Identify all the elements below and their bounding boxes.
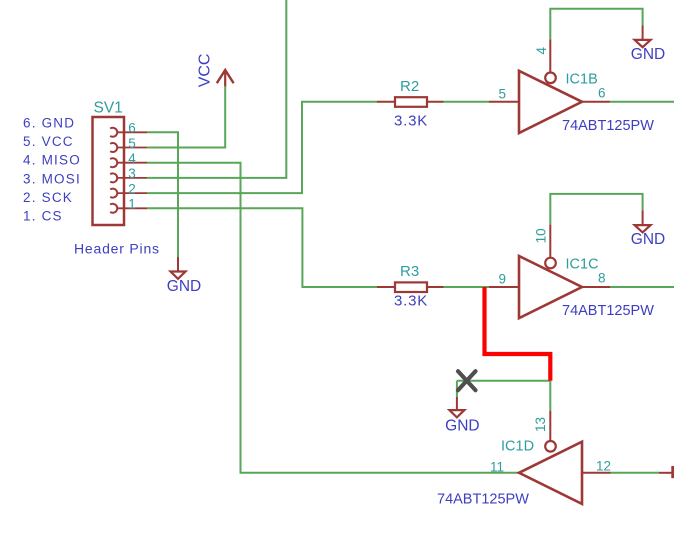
bubble enable IC1B — [545, 73, 556, 84]
wire pin3 MOSI net to top edge — [147, 0, 286, 178]
svg-text:IC1C: IC1C — [566, 257, 599, 273]
pin 2 of SV1 — [110, 181, 147, 197]
svg-text:4: 4 — [534, 46, 549, 54]
wire pin2 SCK net to R2 — [147, 102, 377, 193]
svg-text:10: 10 — [534, 228, 549, 243]
label list pin names — [23, 116, 81, 224]
resistor R2 right lead — [427, 101, 444, 103]
ground GND2 top right — [631, 25, 665, 63]
svg-text:Header Pins: Header Pins — [74, 241, 160, 257]
wire IC1B output to edge — [610, 101, 674, 103]
wire IC1C output to edge — [610, 286, 674, 288]
wire down to IC1D enable — [549, 381, 551, 411]
svg-text:5. VCC: 5. VCC — [23, 134, 74, 149]
pin wire input IC1C — [489, 286, 519, 288]
resistor R2 left lead — [377, 101, 395, 103]
svg-text:5: 5 — [498, 87, 506, 102]
svg-text:6: 6 — [128, 121, 136, 136]
wire enable IC1C to GND — [550, 194, 642, 225]
svg-text:6: 6 — [598, 85, 606, 100]
resistor R3 body — [395, 282, 427, 292]
svg-text:1: 1 — [128, 197, 136, 212]
svg-text:12: 12 — [596, 459, 611, 474]
svg-text:74ABT125PW: 74ABT125PW — [562, 118, 654, 134]
pin 10 enable wire maroon — [549, 224, 551, 257]
svg-text:4: 4 — [128, 151, 136, 166]
pin 4 enable wire maroon — [549, 39, 551, 72]
svg-text:SV1: SV1 — [94, 100, 123, 117]
wire X junction horizontal — [457, 380, 550, 382]
svg-text:5: 5 — [128, 136, 136, 151]
svg-text:2. SCK: 2. SCK — [23, 190, 73, 205]
svg-text:13: 13 — [533, 417, 548, 432]
pin 6 of SV1 — [110, 121, 147, 137]
resistor R3 left lead — [377, 286, 395, 288]
pin stub vertical right edge — [671, 466, 674, 478]
svg-text:74ABT125PW: 74ABT125PW — [562, 303, 654, 319]
svg-text:GND: GND — [631, 231, 665, 248]
svg-text:9: 9 — [498, 272, 506, 287]
pin 4 of SV1 — [110, 151, 147, 167]
connector SV1 body — [93, 117, 125, 225]
ground GND4 below X — [445, 397, 479, 435]
ground GND1 below header — [167, 257, 201, 295]
output pin wire IC1D — [582, 472, 611, 474]
svg-text:R3: R3 — [400, 263, 419, 280]
wire R2 to IC1B — [444, 101, 490, 103]
svg-text:GND: GND — [631, 46, 665, 63]
svg-text:74ABT125PW: 74ABT125PW — [437, 491, 529, 507]
buffer IC1D triangle mirrored — [519, 442, 582, 504]
pin 13 enable wire maroon — [549, 411, 551, 441]
svg-text:8: 8 — [598, 271, 606, 286]
buffer IC1C triangle — [519, 256, 582, 318]
svg-text:IC1B: IC1B — [566, 72, 598, 88]
supply VCC arrow — [197, 54, 234, 88]
svg-text:1. CS: 1. CS — [23, 209, 63, 224]
svg-text:3. MOSI: 3. MOSI — [23, 171, 81, 186]
bubble enable IC1C — [545, 258, 556, 269]
svg-text:3.3K: 3.3K — [394, 293, 428, 310]
svg-text:R2: R2 — [400, 78, 419, 95]
svg-text:GND: GND — [445, 418, 479, 435]
svg-text:IC1D: IC1D — [501, 439, 534, 455]
wire enable IC1B to GND — [550, 9, 642, 40]
wire pin5 VCC net — [147, 86, 225, 147]
buffer IC1B triangle — [519, 71, 582, 133]
X mark crossed junction — [458, 371, 476, 390]
svg-text:6. GND: 6. GND — [23, 116, 75, 131]
wire R3 to IC1C — [444, 286, 490, 288]
bubble enable IC1D — [545, 441, 556, 452]
pin wire right edge — [659, 472, 672, 474]
resistor R2 body — [395, 97, 427, 107]
pin 5 of SV1 — [110, 136, 147, 152]
wire X to GND4 — [456, 381, 458, 397]
wire pin1 CS net to R3 — [147, 208, 377, 287]
resistor R3 right lead — [427, 286, 444, 288]
wire pin4 MISO net to IC1D input — [147, 163, 519, 473]
svg-text:2: 2 — [128, 181, 136, 196]
pin 3 of SV1 — [110, 166, 147, 182]
output pin wire IC1B — [582, 101, 610, 103]
highlight red net — [485, 287, 551, 381]
wire pin6 GND net — [147, 132, 178, 257]
svg-text:3.3K: 3.3K — [394, 113, 428, 130]
pin 1 of SV1 — [110, 197, 147, 213]
svg-text:GND: GND — [167, 278, 201, 295]
svg-text:3: 3 — [128, 166, 136, 181]
svg-text:11: 11 — [490, 459, 504, 474]
svg-text:VCC: VCC — [197, 54, 214, 88]
wire IC1D output — [611, 472, 660, 474]
svg-text:4. MISO: 4. MISO — [23, 153, 81, 168]
pin wire input IC1B — [489, 101, 519, 103]
ground GND3 right middle — [631, 210, 665, 248]
output pin wire IC1C — [582, 286, 610, 288]
